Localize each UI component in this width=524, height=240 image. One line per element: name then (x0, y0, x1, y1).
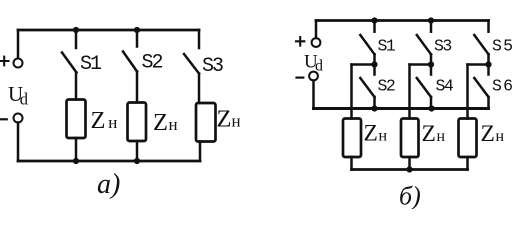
label Zn1 (91, 107, 118, 134)
label Zn2 (b) (422, 121, 446, 147)
node junction top branch1 (b) (371, 17, 377, 23)
wire stub S6 top (487, 65, 490, 75)
svg-text:S6: S6 (492, 76, 514, 95)
label Zn2 (153, 109, 178, 136)
svg-text:н: н (108, 113, 117, 132)
svg-text:Z: Z (153, 109, 168, 136)
node junction top branch2 (b) (428, 17, 434, 23)
node junction S2 lower bus (371, 105, 377, 111)
svg-text:S2: S2 (142, 52, 163, 75)
wire stub S4 top (430, 65, 433, 75)
label Ud (circuit b) (304, 52, 323, 75)
svg-text:S4: S4 (436, 76, 454, 95)
wire top bus (circuit b) (316, 19, 489, 22)
+ terminal circle (circuit b) (312, 38, 321, 47)
wire stub S3 top (b) (430, 21, 433, 32)
resistor Zn3 (load box) (196, 103, 216, 142)
switch S1 blade (62, 53, 77, 73)
wire S1 to Zn1 (75, 73, 78, 100)
svg-text:н: н (496, 128, 505, 145)
svg-text:S1: S1 (80, 53, 102, 76)
switch S1 blade (b) (360, 35, 374, 54)
wire stub S2 top (136, 30, 139, 47)
switch S3 blade (b) (417, 35, 431, 54)
wire load2 bottom to neutral (408, 157, 411, 170)
switch S4 blade (b) (417, 78, 431, 97)
wire from - terminal down to bottom bus (17, 123, 20, 162)
wire stub S5 top (right corner of top bus) (487, 21, 490, 32)
wire S2 to lower bus (373, 97, 376, 109)
svg-text:н: н (437, 128, 446, 145)
wire S6 to lower bus right end (487, 97, 490, 109)
svg-text:н: н (379, 127, 388, 144)
svg-text:б): б) (399, 182, 421, 210)
wire bottom bus (circuit a) (18, 160, 200, 163)
wire S5 blade to node C (487, 54, 490, 64)
wire jog node C to load3 feed (468, 63, 489, 66)
label + sign (0, 57, 9, 66)
svg-text:S5: S5 (492, 37, 514, 56)
resistor Zn2 load (b) (401, 119, 419, 158)
wire stub S1 top (b) (373, 21, 376, 32)
wire S4 to lower bus (430, 97, 433, 109)
svg-text:Z: Z (91, 107, 106, 134)
switch S5 blade (b) (474, 35, 488, 54)
node A midpoint branch1 (371, 61, 377, 67)
switch S3 blade (184, 54, 199, 74)
label - sign (circuit b) (297, 76, 304, 78)
wire neutral bus (circuit b) (352, 168, 468, 171)
wire lower bus (circuit b) (314, 107, 489, 110)
label - sign (0, 118, 7, 120)
svg-text:Z: Z (364, 120, 378, 146)
wire Zn1 to bottom bus (75, 138, 78, 161)
svg-text:S2: S2 (378, 76, 395, 95)
wire S3 blade to node B (430, 54, 433, 64)
wire load2 feed down across lower bus (408, 65, 411, 119)
wire stub S1 top (75, 30, 78, 48)
resistor Zn1 load (b) (343, 119, 361, 158)
wire Zn2 to bottom bus (136, 141, 139, 161)
wire stub S3 top (right corner) (198, 30, 201, 48)
svg-text:н: н (169, 115, 178, 134)
wire top bus (circuit a) (18, 29, 199, 32)
switch S2 blade (b) (360, 78, 374, 97)
svg-text:S1: S1 (378, 37, 396, 56)
- terminal circle (14, 114, 23, 123)
wire - terminal down to lower bus (312, 81, 315, 109)
resistor Zn2 (load box) (128, 103, 147, 142)
label Ud (8, 82, 29, 109)
resistor Zn3 load (b) (459, 119, 477, 158)
+ terminal circle (14, 59, 23, 68)
svg-text:Z: Z (217, 106, 232, 133)
switch S2 blade (123, 52, 137, 72)
node B midpoint branch2 (428, 61, 434, 67)
node junction top branch2 (134, 27, 140, 33)
wire load3 feed down across lower bus (466, 65, 469, 119)
wire jog node A to load1 feed (352, 63, 375, 66)
- terminal circle (circuit b) (309, 72, 318, 81)
svg-text:S3: S3 (202, 55, 223, 78)
node junction S4 lower bus (428, 105, 434, 111)
svg-text:S3: S3 (434, 37, 451, 56)
label + sign (circuit b) (296, 37, 304, 46)
svg-text:d: d (20, 89, 29, 108)
node junction neutral (406, 166, 412, 172)
svg-text:Z: Z (422, 121, 436, 147)
wire S3 to Zn3 (198, 74, 201, 104)
label Zn3 (217, 106, 241, 133)
wire S2 to Zn2 (136, 72, 139, 103)
svg-text:н: н (232, 112, 241, 131)
wire left vertical from top bus to + terminal (17, 30, 20, 58)
wire Zn3 to bottom bus (199, 142, 202, 162)
wire load3 bottom to neutral (466, 157, 469, 170)
node C midpoint branch3 (485, 61, 491, 67)
wire stub S2 top (373, 65, 376, 75)
label Zn1 (b) (364, 120, 388, 146)
svg-text:а): а) (97, 169, 120, 200)
wire load1 feed down across lower bus (350, 65, 353, 119)
wire load1 bottom to neutral (350, 157, 353, 170)
node junction bottom branch2 (134, 158, 140, 164)
wire jog node B to load2 feed (410, 63, 432, 66)
label Zn3 (b) (481, 121, 505, 147)
wire + terminal to top bus (315, 21, 318, 39)
wire S1 blade to node A (373, 54, 376, 64)
node junction top branch1 (73, 27, 79, 33)
svg-text:Z: Z (481, 121, 495, 147)
switch S6 blade (b) (474, 78, 488, 97)
resistor Zn1 (load box) (67, 100, 86, 139)
node junction bottom branch1 (73, 158, 79, 164)
